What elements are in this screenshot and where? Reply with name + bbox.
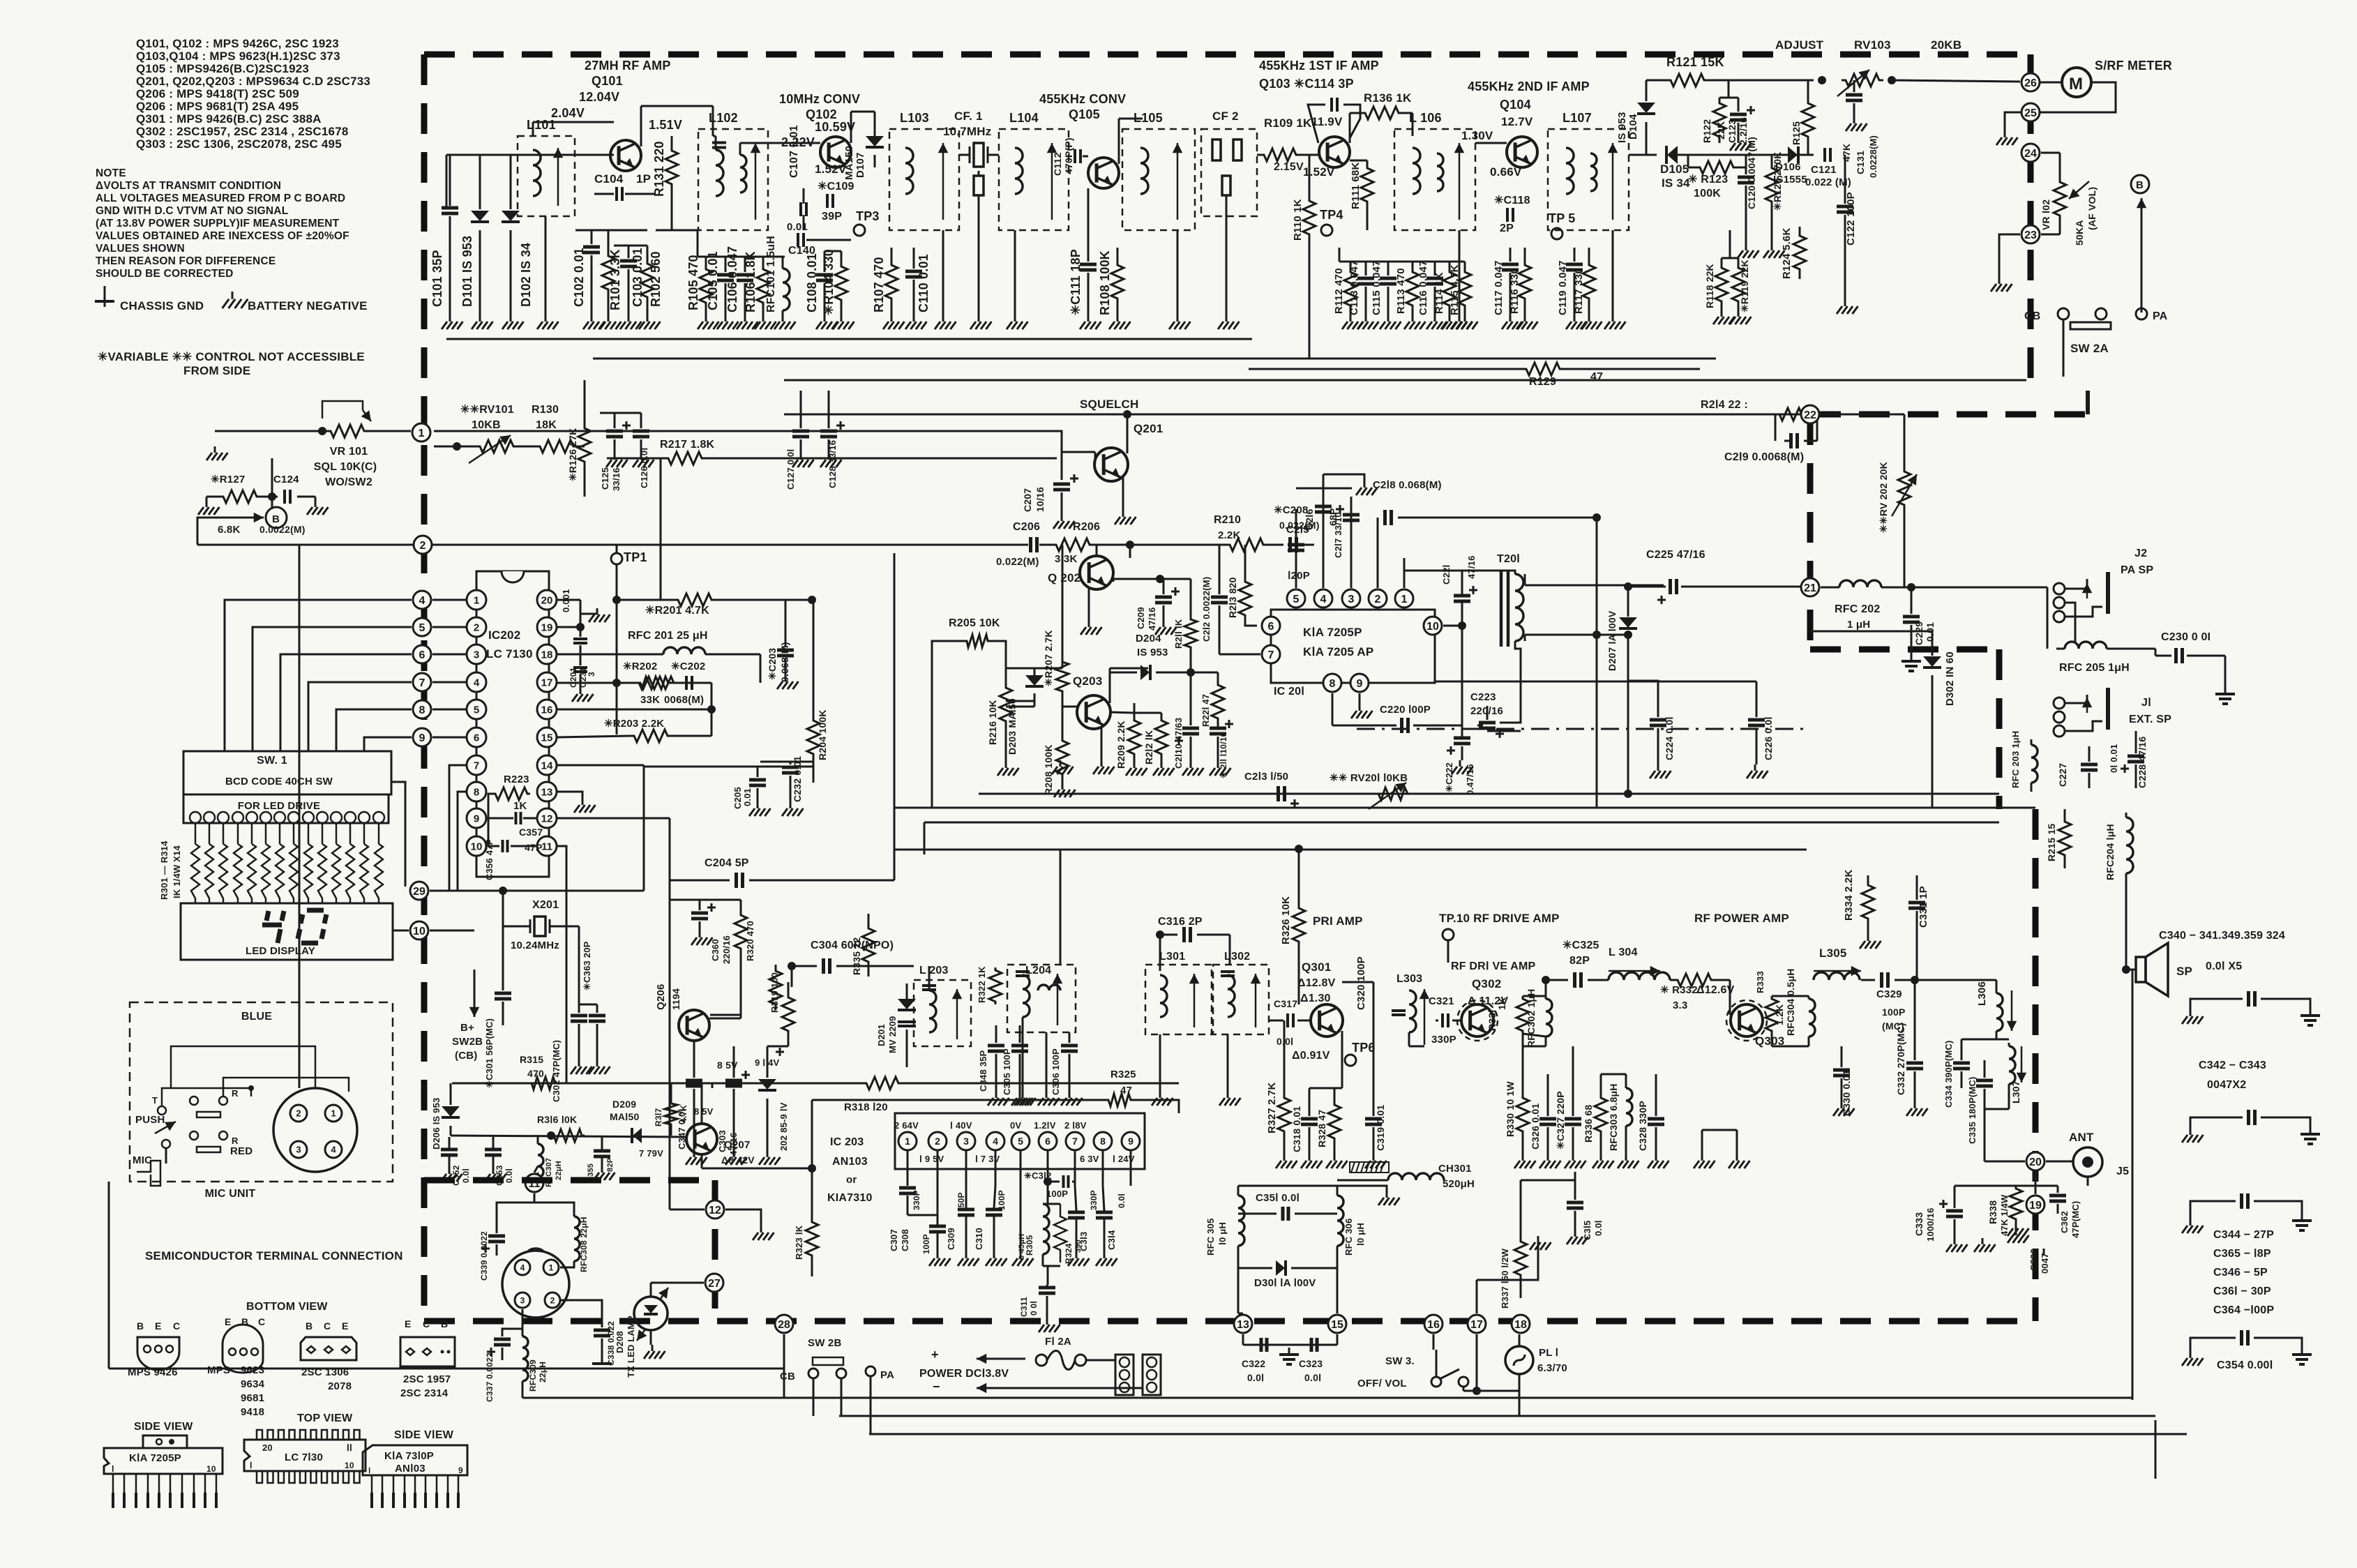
svg-text:Q206 : MPS 9418(T) 2SC 509: Q206 : MPS 9418(T) 2SC 509 [136,87,299,100]
node 19 connector [2026,1196,2045,1214]
svg-text:KⅠA 7205P: KⅠA 7205P [129,1452,181,1464]
svg-text:TP3: TP3 [856,209,880,223]
svg-text:CB: CB [780,1371,795,1382]
coil RFC303 6.8uH [1625,1074,1627,1088]
svg-text:100P: 100P [1882,1007,1906,1018]
svg-text:Δ1.30: Δ1.30 [1300,993,1331,1004]
svg-text:KIA7310: KIA7310 [827,1192,873,1204]
wire mic line 1962 [108,1182,110,1369]
svg-text:R2Ⅰ3 820: R2Ⅰ3 820 [1227,577,1238,618]
node 25 connector [2021,103,2040,121]
pot RV202 20K [1898,439,1911,537]
svg-text:R327 2.7K: R327 2.7K [1266,1082,1278,1133]
transistor Q207 [686,1124,717,1154]
pcb border top [424,52,2031,58]
svg-text:C362: C362 [2059,1211,2070,1233]
resistor R337 150 1/2W [1514,1219,1527,1298]
svg-text:19: 19 [2029,1200,2042,1212]
svg-text:6: 6 [1045,1136,1051,1147]
svg-text:C201: C201 [568,667,578,688]
svg-text:9: 9 [1357,678,1363,690]
resistor R209 2.2K [1128,713,1140,762]
node 20 connector [2026,1152,2045,1170]
coil RFC307 22uH [537,1137,539,1144]
svg-text:E: E [342,1320,349,1332]
svg-text:IS1555: IS1555 [1773,174,1807,186]
resistor R221 47 [1212,680,1224,723]
svg-text:3: 3 [296,1145,301,1155]
svg-text:X201: X201 [532,899,559,911]
svg-text:C: C [324,1320,331,1332]
diode D302 IN60 [1810,631,1932,656]
capacitor C126 0.01 [640,413,642,428]
ic202 left pins 1-10 [467,590,486,610]
coil R305 0.45uH resistor R324 390 [1047,1186,1049,1204]
ic201 pin 3 [1342,589,1360,608]
resistor R129 47 [1521,363,1566,375]
capacitor C125 33/16 [614,413,616,428]
svg-text:ANⅠ03: ANⅠ03 [395,1463,426,1475]
svg-text:L101: L101 [527,118,556,132]
svg-text:4: 4 [474,677,480,688]
svg-text:BLUE: BLUE [241,1011,272,1023]
svg-text:2: 2 [474,621,479,633]
svg-text:8: 8 [419,704,426,716]
svg-text:1.52V: 1.52V [1303,165,1335,179]
svg-text:C108 0.01: C108 0.01 [805,253,819,312]
svg-text:L303: L303 [1396,973,1422,985]
tx bus line 3 [924,822,1999,824]
wire q201 collector rail [784,414,1810,416]
wire line 1628 [451,1136,686,1137]
svg-text:✳R203 2.2K: ✳R203 2.2K [604,718,664,730]
svg-text:Ⅰ: Ⅰ [368,1467,370,1475]
zener D202 8.5-9.1V [767,1046,769,1078]
svg-text:C: C [173,1320,180,1332]
pcb border right x2595 [1807,414,1814,649]
svg-text:RFC304 0.5μH: RFC304 0.5μH [1785,968,1796,1036]
svg-text:5: 5 [474,704,479,716]
svg-text:C2Ⅰ9 0.0068(M): C2Ⅰ9 0.0068(M) [1724,451,1804,463]
svg-text:C342 − C343: C342 − C343 [2199,1060,2266,1071]
svg-text:33K: 33K [640,694,660,706]
svg-text:R215 15: R215 15 [2046,824,2057,861]
wire rf bottom rail [446,338,1252,340]
svg-text:J2: J2 [2134,548,2147,559]
svg-text:C320 100P: C320 100P [1355,956,1367,1010]
svg-text:C: C [423,1318,430,1329]
svg-text:L301: L301 [1159,951,1185,963]
ic201 pin 2 [1369,589,1387,608]
pot VR102 50KA AF VOL [2041,152,2060,154]
svg-text:✳C363 20P: ✳C363 20P [582,941,592,990]
svg-text:C330 0.01: C330 0.01 [1841,1070,1852,1116]
capacitor C339 0.022 [534,1193,536,1203]
svg-text:C319 0.01: C319 0.01 [1375,1105,1386,1151]
svg-text:82P: 82P [1569,955,1590,967]
wire pin16 row [557,709,711,711]
resistor R212 1K [1155,713,1168,762]
svg-text:2: 2 [550,1295,555,1305]
svg-text:10.59V: 10.59V [815,120,855,134]
svg-text:✳R201 4.7K: ✳R201 4.7K [645,605,709,617]
svg-text:15: 15 [1331,1319,1343,1331]
svg-text:FⅠ 2A: FⅠ 2A [1045,1336,1071,1348]
border nodes 4-9 [413,591,431,609]
svg-text:R136 1K: R136 1K [1364,91,1412,105]
svg-text:R117 330: R117 330 [1573,268,1585,314]
svg-text:PL Ⅰ: PL Ⅰ [1539,1347,1558,1359]
svg-text:MAⅠ50: MAⅠ50 [610,1111,639,1122]
svg-text:5: 5 [1293,594,1300,605]
capacitor C131 0.022(M) [1853,80,1855,92]
mic switch contacts [158,1106,166,1115]
svg-text:SQUELCH: SQUELCH [1080,398,1139,411]
svg-text:✳C111 18P: ✳C111 18P [1069,249,1083,315]
capacitor C337 0.0022 [502,1309,522,1336]
svg-text:22K: 22K [1715,121,1726,140]
svg-text:R305: R305 [1025,1235,1034,1256]
svg-text:C232 0.01: C232 0.01 [792,756,803,802]
svg-text:L302: L302 [1224,951,1250,963]
svg-text:R2ⅠⅠ ⅠK: R2ⅠⅠ ⅠK [1173,619,1184,649]
svg-text:22μH: 22μH [538,1362,548,1382]
svg-text:12.7V: 12.7V [1501,115,1533,128]
ground rf power [1701,1130,1703,1154]
svg-text:R109 1K: R109 1K [1264,116,1312,130]
svg-text:C365 − Ⅰ8P: C365 − Ⅰ8P [2213,1248,2271,1260]
svg-text:C101 35P: C101 35P [430,250,444,307]
resistor R122 22K [1713,98,1726,143]
svg-text:✳C109: ✳C109 [818,181,854,193]
svg-text:C126 0.0Ⅰ: C126 0.0Ⅰ [639,448,649,488]
svg-text:17: 17 [541,677,553,688]
svg-text:✳R104 330: ✳R104 330 [822,249,836,315]
package KIA7205P side view [143,1435,187,1448]
svg-text:R209 2.2K: R209 2.2K [1115,721,1127,769]
mic push stub [162,1140,170,1148]
svg-text:R210: R210 [1214,514,1241,526]
svg-text:455KHz 2ND IF AMP: 455KHz 2ND IF AMP [1468,80,1590,93]
svg-text:PRI AMP: PRI AMP [1313,914,1363,928]
pcb border left [421,54,428,1321]
wire squelch left vertical [660,458,662,601]
svg-text:C128 33/16: C128 33/16 [827,440,838,488]
svg-text:C2Ⅰ2 0.0022(M): C2Ⅰ2 0.0022(M) [1201,577,1212,642]
tx bus line 4 [894,849,1807,851]
svg-text:4: 4 [993,1136,998,1147]
resistor R117 330 [1583,248,1595,315]
svg-text:D104: D104 [1627,114,1639,140]
svg-text:2SC 1306: 2SC 1306 [301,1366,349,1378]
svg-text:9: 9 [1128,1136,1134,1147]
capacitor C119 0.047 [1574,248,1576,262]
svg-text:Q206: Q206 [655,984,667,1011]
ic201 box KIA7205P [1271,610,1435,683]
ic202 box LC7130 [476,571,549,877]
resistor R114 1K [1443,262,1456,315]
ic201 pin 4 [1314,589,1332,608]
svg-text:PA: PA [880,1369,894,1381]
svg-text:D102 IS 34: D102 IS 34 [519,243,533,307]
svg-text:R217 1.8K: R217 1.8K [660,439,715,451]
svg-text:4: 4 [331,1145,336,1155]
svg-text:C331 1P: C331 1P [1918,886,1929,928]
capacitor C334 390P MC [1961,1039,1963,1060]
svg-text:9623: 9623 [241,1364,264,1376]
ic201 pin 8 [1323,674,1341,692]
svg-text:C35Ⅰ 0.0Ⅰ: C35Ⅰ 0.0Ⅰ [1256,1192,1300,1204]
svg-text:R115 4.7K: R115 4.7K [1449,264,1461,315]
svg-text:0.66V: 0.66V [1490,165,1522,179]
svg-text:LC 7Ⅰ30: LC 7Ⅰ30 [285,1452,323,1463]
svg-text:17: 17 [1470,1319,1483,1331]
svg-text:4: 4 [520,1262,525,1272]
resistor R328 47 [1328,1088,1341,1154]
capacitor C338 0.022 [561,1300,602,1327]
coil L103 [889,129,959,230]
svg-text:Q303 : 2SC 1306, 2SC2078, 2S: Q303 : 2SC 1306, 2SC2078, 2SC 495 [136,137,342,151]
capacitor C127 0.01 [800,391,802,428]
svg-text:R101 3.3K: R101 3.3K [608,249,622,310]
svg-text:4.7K: 4.7K [679,1105,688,1123]
capacitor C335 180P MC [1984,1060,1986,1078]
svg-text:24: 24 [2024,148,2037,160]
capacitor C360 220/16 [691,912,708,915]
svg-text:7 79V: 7 79V [639,1148,663,1159]
svg-text:C225 47/16: C225 47/16 [1646,549,1705,561]
svg-text:Q301 : MPS 9426(B.C) 2SC 388: Q301 : MPS 9426(B.C) 2SC 388A [136,112,322,126]
ic201 pin 6 [1262,617,1280,635]
svg-text:RFC 201 25 μH: RFC 201 25 μH [628,630,708,642]
svg-text:33/16: 33/16 [611,467,622,491]
svg-text:C106 0.047: C106 0.047 [725,246,739,312]
ic201 pin 7 [1262,645,1280,663]
svg-text:C2Ⅰ3 Ⅰ/50: C2Ⅰ3 Ⅰ/50 [1244,771,1288,783]
capacitor C212 0.0022(M) [1219,545,1221,594]
wire squelch line bend [1053,431,1062,480]
resistor R333 1.2K [1765,996,1778,1034]
svg-text:455KHz CONV: 455KHz CONV [1039,92,1126,106]
wire line 1553 [452,1083,712,1085]
svg-text:C113 0.047: C113 0.047 [1348,260,1360,315]
svg-text:KⅠA 7205P: KⅠA 7205P [1303,626,1362,639]
svg-text:0Ⅰ 0.01: 0Ⅰ 0.01 [2109,744,2119,773]
svg-text:100P: 100P [1046,1189,1068,1199]
resistor R124 5.6K [1793,227,1806,279]
resistor R101 3.3K [602,230,615,315]
capacitor C330 0.01 [1841,1046,1843,1067]
capacitor C102 0.01 [591,230,593,244]
svg-text:47P(MC): 47P(MC) [2070,1201,2081,1238]
svg-text:R111 68K: R111 68K [1350,163,1362,210]
svg-text:Ⅰ 9 5V: Ⅰ 9 5V [919,1154,944,1164]
resistor R213 820 [1239,576,1251,621]
lamp PL1 6.3/70 [1505,1346,1533,1374]
svg-text:C116 0.047: C116 0.047 [1417,260,1429,315]
svg-text:CHASSIS GND: CHASSIS GND [120,299,204,312]
svg-text:IC 203: IC 203 [830,1136,864,1148]
svg-text:C307: C307 [889,1229,899,1251]
svg-text:R301 — R314: R301 — R314 [159,840,170,900]
capacitor C322 0.01 [1242,1334,1244,1345]
svg-text:IS 953: IS 953 [1616,112,1628,143]
node 29 connector [410,882,428,900]
svg-text:1.2ⅠV: 1.2ⅠV [1034,1120,1056,1131]
tx bus line 2 [894,807,2035,809]
node 15 connector [1328,1315,1346,1333]
node 12 connector [706,1200,724,1219]
pcb border right x2918 lower [2033,809,2039,1321]
svg-text:Δ0.91V: Δ0.91V [1292,1050,1330,1062]
svg-text:ALL VOLTAGES MEASURED FROM P: ALL VOLTAGES MEASURED FROM P C BOARD [96,193,345,204]
svg-text:21: 21 [1804,582,1816,594]
capacitor C332 270P MC [1914,980,1916,1060]
svg-text:C302 47P(MC): C302 47P(MC) [551,1040,562,1102]
capacitor C106 0.047 [744,257,746,272]
node 22 connector [1801,405,1819,423]
wire pin19 [557,626,580,628]
svg-text:C340 − 341.349.359 324: C340 − 341.349.359 324 [2159,930,2285,942]
svg-text:C346 − 5P: C346 − 5P [2213,1267,2268,1279]
svg-text:10: 10 [1426,621,1439,633]
ground pin5 [1020,1186,1022,1252]
svg-text:2.04V: 2.04V [551,106,585,120]
svg-text:R3Ⅰ6 Ⅰ0K: R3Ⅰ6 Ⅰ0K [537,1114,577,1125]
svg-text:1.51V: 1.51V [649,118,682,132]
svg-text:(AT 13.8V POWER SUPPLY)IF MEAS: (AT 13.8V POWER SUPPLY)IF MEASUREMENT [96,218,340,229]
wire x201 legs down [502,926,504,970]
cap motif 3 [2190,1201,2236,1219]
cap motif 1 [2190,999,2243,1010]
svg-text:C227: C227 [2057,763,2068,787]
svg-text:1: 1 [419,428,425,439]
svg-text:R129: R129 [1529,376,1556,388]
svg-text:19: 19 [541,621,553,633]
diode D104 IS953 [1646,80,1648,101]
svg-text:Ⅰ0 μH: Ⅰ0 μH [1355,1223,1366,1246]
svg-text:SP: SP [2176,965,2192,978]
svg-text:✳✳RV101: ✳✳RV101 [460,404,514,416]
speaker SP [2136,957,2146,982]
svg-text:5: 5 [419,622,426,634]
svg-text:R108 100K: R108 100K [1098,250,1112,315]
svg-text:R131 220: R131 220 [652,141,666,197]
resistor R107 470 [885,248,898,315]
svg-text:Q206 : MPS 9681(T) 2SA 495: Q206 : MPS 9681(T) 2SA 495 [136,100,299,113]
capacitor C333 1000/16 [1946,1209,1963,1213]
svg-text:29: 29 [413,886,426,898]
svg-text:R334 2.2K: R334 2.2K [1843,869,1855,921]
svg-text:D204: D204 [1136,633,1161,644]
svg-text:1P: 1P [636,172,651,186]
svg-text:VALUES SHOWN: VALUES SHOWN [96,243,185,255]
svg-text:J5: J5 [2116,1166,2129,1177]
node 16 connector [1424,1315,1443,1333]
svg-text:0047: 0047 [2040,1253,2050,1274]
svg-text:B: B [441,1318,448,1329]
node 18 connector [1512,1315,1530,1333]
svg-text:2.15V: 2.15V [1274,161,1304,173]
ic202 right pins 20-11 [537,590,557,610]
svg-text:C22Ⅰ: C22Ⅰ [1441,565,1452,585]
capacitor C336 0.047 [2043,1249,2045,1256]
svg-text:B: B [306,1320,312,1332]
svg-text:3.3: 3.3 [1673,1000,1687,1011]
svg-text:0.47/16: 0.47/16 [1465,764,1475,795]
svg-text:C105 0.01: C105 0.01 [706,251,720,310]
svg-text:R122: R122 [1701,119,1712,143]
svg-text:1194: 1194 [670,988,682,1010]
capacitor C308 100P [929,1225,946,1228]
svg-text:C: C [258,1316,265,1327]
svg-text:0.0228(M): 0.0228(M) [1868,135,1878,178]
capacitor C103 0.01 [628,246,630,258]
svg-text:18K: 18K [536,419,557,431]
coil L106 [1394,129,1475,230]
svg-text:S/RF METER: S/RF METER [2095,59,2172,73]
svg-text:−: − [933,1380,940,1394]
ic203 pin wires down [907,1149,909,1186]
svg-text:C323: C323 [1299,1358,1323,1369]
ground pin13 [557,792,582,799]
coil L307 [2008,1043,2010,1046]
resistor R326 10K [1293,902,1305,949]
svg-text:C310: C310 [974,1228,984,1250]
capacitor C331 1P [1916,875,1918,900]
svg-text:20: 20 [2029,1156,2042,1168]
svg-text:D107: D107 [854,152,866,178]
svg-text:C205: C205 [732,787,743,809]
svg-text:SW. 1: SW. 1 [257,755,287,767]
svg-text:C117 0.047: C117 0.047 [1493,260,1505,315]
svg-text:C122 100P: C122 100P [1845,192,1857,246]
svg-text:TP1: TP1 [624,550,647,564]
svg-text:SIDE VIEW: SIDE VIEW [134,1421,193,1433]
svg-text:16: 16 [1427,1319,1440,1331]
svg-text:C336: C336 [2028,1249,2039,1271]
svg-text:M: M [2069,75,2083,93]
test point TP6 [1345,1055,1356,1066]
capacitor C352 0.01 [441,1148,458,1152]
svg-text:R114 1K: R114 1K [1433,272,1445,314]
capacitor C101 35P [449,155,451,206]
pcb border right upper [2028,54,2034,391]
svg-text:9: 9 [474,813,479,824]
svg-text:L107: L107 [1562,111,1592,125]
svg-text:RFC204 ⅠμH: RFC204 ⅠμH [2104,824,2116,880]
svg-text:MIC UNIT: MIC UNIT [205,1188,256,1200]
svg-text:KⅠA 7205 AP: KⅠA 7205 AP [1303,645,1373,658]
svg-text:✳C203: ✳C203 [767,648,778,680]
svg-text:50KA: 50KA [2074,220,2085,246]
svg-text:R110 1K: R110 1K [1292,199,1304,241]
resistor R116 330 [1519,248,1531,315]
resistor array R301-R314 [195,823,197,844]
resistor R125 47K [1802,98,1814,143]
svg-text:18: 18 [1514,1319,1527,1331]
svg-text:27MH RF AMP: 27MH RF AMP [585,59,671,73]
capacitor C120 0.0047(M) [1745,155,1747,174]
coil RFC202 1uH [1821,587,1839,589]
svg-text:R124 5.6K: R124 5.6K [1781,227,1793,279]
svg-text:R326 10K: R326 10K [1280,896,1292,944]
svg-text:C316 2P: C316 2P [1158,916,1203,928]
capacitor C314 0.01 [1096,1211,1113,1214]
node 21 connector [1801,578,1819,596]
resistor R204 100K [807,713,820,762]
svg-text:CF. 1: CF. 1 [954,110,983,123]
